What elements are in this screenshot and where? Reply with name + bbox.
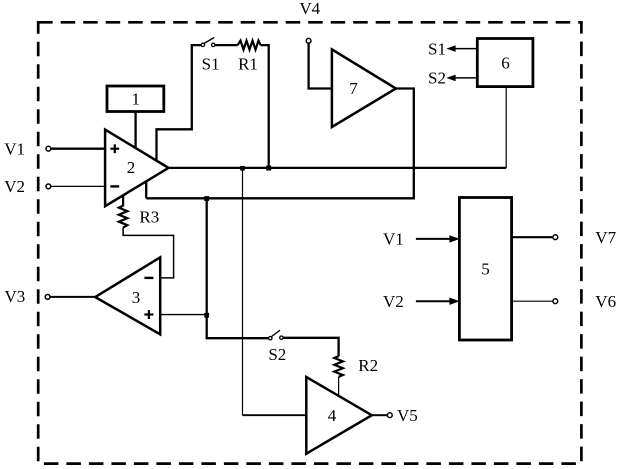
wire S1 to R1 [215, 44, 238, 46]
wire U2 output line [169, 167, 507, 169]
wire tap from U2 lower edge [145, 181, 147, 198]
op-amp U2 [105, 130, 168, 207]
terminal V3 [45, 295, 50, 300]
wire mid vertical from feedback line to S2 [207, 198, 269, 338]
wire S1 left to U2 top edge [157, 45, 202, 161]
svg-text:V2: V2 [4, 177, 25, 196]
wire box5 to V7 [512, 236, 553, 238]
svg-text:S2: S2 [268, 345, 286, 364]
wire box5 to V6 [512, 300, 553, 302]
wire V1 input to op-amp U2 + [51, 148, 105, 150]
switch S2 [269, 337, 272, 340]
op-amp U7 [332, 49, 396, 127]
terminal V4 [306, 38, 311, 43]
svg-text:7: 7 [349, 79, 358, 98]
svg-text:V6: V6 [595, 292, 616, 311]
junction dot on feedback line [204, 196, 209, 201]
junction dot at U3 + tap [204, 313, 209, 318]
svg-text:S2: S2 [428, 69, 446, 88]
wire U3 + input tap [160, 314, 207, 316]
switch S1 [201, 43, 204, 46]
op-amp U3 [95, 257, 160, 334]
wire box6 stem [505, 87, 507, 168]
wire R3 to U3 - input [123, 228, 174, 278]
op-amp U4 [306, 377, 372, 454]
svg-text:V3: V3 [5, 287, 26, 306]
wire U3 output to V3 [50, 296, 95, 298]
terminal V2 [46, 184, 51, 189]
wire V2 input to op-amp U2 - [51, 185, 105, 187]
svg-text:V5: V5 [397, 406, 418, 425]
svg-text:V2: V2 [383, 292, 404, 311]
terminal V6 [553, 299, 558, 304]
svg-text:4: 4 [328, 406, 337, 425]
svg-text:V7: V7 [595, 228, 616, 247]
svg-text:V4: V4 [299, 0, 320, 18]
wire R2 bottom to U4 top edge [338, 377, 340, 396]
wire U2 output down to U4 input [242, 168, 244, 415]
resistor R1 [238, 41, 261, 50]
terminal V7 [553, 235, 558, 240]
wire R1 right down to U2 output line [261, 45, 269, 168]
resistor R2 [334, 356, 343, 377]
svg-text:3: 3 [132, 288, 141, 307]
wire U7 output feedback line [146, 89, 414, 199]
junction dot on output at R1 branch [266, 166, 271, 171]
terminal V1 [46, 146, 51, 151]
wire U4 output to V5 [372, 414, 388, 416]
wire box1 stem to U2 top edge [134, 112, 136, 149]
svg-text:V1: V1 [4, 139, 25, 158]
box 5 [459, 198, 511, 341]
box 1 [107, 86, 164, 112]
resistor R3 [119, 196, 128, 228]
box 6 [477, 39, 533, 87]
svg-text:5: 5 [481, 260, 490, 279]
svg-text:S1: S1 [428, 39, 446, 58]
svg-text:R2: R2 [358, 356, 378, 375]
wire into U4 [243, 414, 307, 416]
terminal V5 [387, 413, 392, 418]
svg-text:R1: R1 [238, 54, 258, 73]
wire S2 right to R2 [283, 338, 339, 356]
junction dot on output at U4 branch [240, 166, 245, 171]
svg-text:1: 1 [131, 89, 140, 108]
svg-text:V1: V1 [383, 229, 404, 248]
svg-text:6: 6 [501, 53, 510, 72]
svg-text:S1: S1 [202, 54, 220, 73]
svg-text:R3: R3 [139, 208, 159, 227]
svg-text:2: 2 [127, 158, 136, 177]
wire V4 terminal to U7 input [309, 43, 332, 88]
